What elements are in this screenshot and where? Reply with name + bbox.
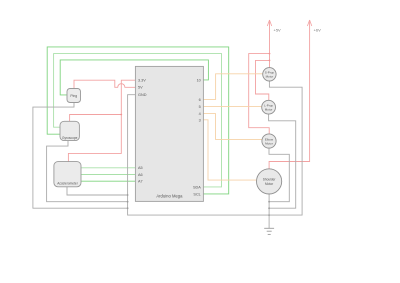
wire grey L-Prop motor ground (269, 114, 296, 208)
wire red +5V rail to servo motor top (269, 20, 271, 68)
svg-text:+6V: +6V (314, 28, 322, 33)
wire green A6 (81, 174, 135, 176)
motor M3 elbow (262, 134, 276, 148)
svg-text:5V: 5V (138, 86, 143, 90)
svg-text:Motor: Motor (266, 75, 274, 79)
wire green A7 (81, 180, 135, 182)
wire red +6V rail to shoulder motor top (269, 20, 310, 169)
wire red 5V to Ping top (with hop over 3.3V trunk) (74, 80, 135, 88)
svg-text:SCL: SCL (193, 192, 200, 196)
node junction dots (120, 53, 270, 216)
wire grey ping ground (33, 103, 128, 209)
power arrow +6V (307, 20, 311, 26)
wire grey accelerometer ground (67, 187, 128, 195)
svg-text:5: 5 (199, 105, 201, 109)
svg-text:4: 4 (199, 112, 201, 116)
wire orange pin 3 to shoulder motor (203, 120, 256, 180)
wire grey elbow motor ground (269, 148, 289, 202)
wire green Ping SIG to pin 10 (60, 60, 208, 95)
svg-text:Motor: Motor (265, 182, 274, 186)
svg-text:Motor: Motor (265, 141, 273, 145)
wire green SCL net: gyroscope to SCL pin (47, 47, 229, 194)
svg-text:Shoulder: Shoulder (263, 178, 277, 182)
Accelerometer (54, 162, 81, 187)
wire grey gyroscope ground (47, 141, 128, 202)
motor M4 shoulder (257, 169, 282, 194)
svg-text:3.3V: 3.3V (138, 79, 146, 83)
svg-text:Motor: Motor (265, 108, 273, 112)
wire orange pin 6 to servo motor (203, 74, 262, 100)
Ping sensor (67, 89, 81, 103)
svg-text:Ping: Ping (70, 94, 77, 98)
svg-text:A6: A6 (138, 173, 143, 177)
motor M2 L-Prop (262, 100, 276, 114)
motor M1 servo (263, 68, 276, 81)
svg-text:3: 3 (199, 118, 201, 122)
svg-text:6: 6 (199, 98, 201, 102)
wire red +5V tap to elbow motor top (249, 54, 270, 134)
wire orange pin 4 to elbow motor (203, 114, 262, 140)
svg-text:SDA: SDA (193, 185, 201, 189)
svg-text:10: 10 (197, 78, 201, 82)
wire green A5 (81, 167, 135, 169)
power arrow +5V (267, 20, 271, 26)
svg-text:GND: GND (138, 93, 147, 97)
svg-text:Accelerometer: Accelerometer (57, 182, 78, 186)
wire green SDA net: gyroscope to SDA pin (54, 54, 222, 187)
svg-text:Gyroscope: Gyroscope (62, 136, 78, 140)
svg-text:Arduino Mega: Arduino Mega (156, 194, 183, 199)
wire orange pin 5 to L-Prop motor (203, 106, 261, 108)
svg-text:A7: A7 (138, 180, 143, 184)
wire red 3.3V to gyroscope/accelerometer trunk (68, 80, 135, 161)
wire grey GND pin rail to servo bottom (128, 81, 303, 215)
Gyroscope (60, 121, 79, 140)
svg-text:A5: A5 (138, 166, 143, 170)
wire grey shoulder motor to ground symbol (268, 194, 270, 228)
ground (264, 228, 274, 234)
wire red +5V tap to L-Prop motor top (256, 60, 270, 100)
svg-text:+5V: +5V (274, 28, 282, 33)
wire red 3.3V branch to gyroscope top (70, 115, 122, 122)
Arduino Mega U1 (135, 66, 203, 201)
